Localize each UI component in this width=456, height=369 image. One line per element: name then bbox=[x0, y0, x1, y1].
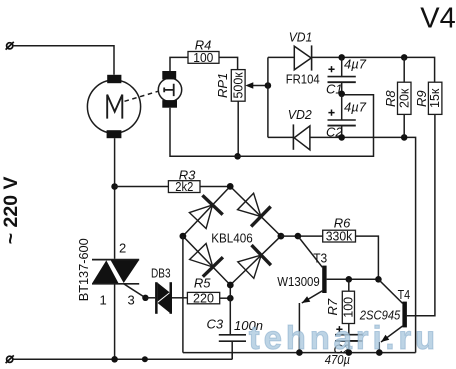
node gate bbox=[142, 295, 148, 301]
svg-text:BT137-600: BT137-600 bbox=[76, 238, 91, 301]
node T3 emitter bbox=[296, 349, 303, 356]
resistor R5 220 bbox=[187, 275, 219, 305]
diac DB3 bbox=[151, 266, 172, 314]
node bridge left bbox=[180, 233, 187, 240]
svg-text:100: 100 bbox=[193, 51, 213, 65]
wire bridge left vertical bbox=[182, 236, 184, 353]
node R8 top bbox=[401, 54, 408, 61]
wire vertical wiper net bbox=[267, 57, 269, 137]
wire tach top to R4 bbox=[170, 57, 188, 71]
node bridge bottom bbox=[227, 282, 234, 289]
svg-text:4µ7: 4µ7 bbox=[344, 100, 367, 115]
svg-text:RP1: RP1 bbox=[215, 73, 230, 98]
svg-text:R8: R8 bbox=[383, 90, 398, 107]
node R8 bottom bbox=[401, 134, 408, 141]
wire tach bottom long horizontal bbox=[170, 95, 374, 157]
wire VD1 anode bbox=[268, 56, 294, 58]
node bridge right bbox=[278, 233, 285, 240]
wire R9 bottom to T4 base bbox=[407, 114, 435, 315]
potentiometer RP1 500k bbox=[215, 70, 268, 102]
outer mains rail bbox=[13, 353, 232, 360]
svg-text:W13009: W13009 bbox=[277, 274, 320, 289]
motor M bbox=[87, 75, 140, 138]
capacitor C2 470u bbox=[325, 326, 363, 367]
svg-text:FR104: FR104 bbox=[286, 71, 320, 86]
dashed coupling motor-tach bbox=[125, 91, 159, 101]
node R3 junction bbox=[111, 183, 118, 190]
terminal X1 top-left bbox=[6, 42, 14, 50]
svg-text:R5: R5 bbox=[194, 275, 211, 290]
node R5 junction bbox=[227, 295, 234, 302]
triac VS BT137-600 bbox=[76, 238, 146, 307]
wire VD2 anode to right bbox=[310, 137, 416, 352]
svg-text:VD2: VD2 bbox=[288, 107, 313, 122]
resistor R9 15k bbox=[414, 82, 442, 114]
svg-text:R7: R7 bbox=[325, 298, 340, 315]
svg-text:20к: 20к bbox=[397, 88, 411, 108]
svg-text:R9: R9 bbox=[414, 90, 429, 107]
svg-text:KBL406: KBL406 bbox=[211, 230, 253, 245]
diode VD1 bbox=[286, 29, 320, 86]
wire T4 collector diagonal bbox=[378, 279, 402, 303]
transistor T3 W13009 bbox=[277, 236, 349, 353]
resistor R3 2k2 bbox=[168, 168, 200, 194]
node T3 base junction bbox=[295, 233, 302, 240]
wire T3 collector rail bbox=[349, 278, 379, 280]
wire RP1 bottom bbox=[237, 101, 239, 156]
svg-text:T4: T4 bbox=[398, 287, 411, 302]
wire motor to triac bbox=[114, 138, 116, 259]
node R7 top bbox=[346, 276, 353, 283]
wire R5 right bbox=[220, 297, 231, 299]
tachogenerator bbox=[158, 71, 181, 108]
svg-text:330k: 330k bbox=[326, 230, 353, 244]
svg-text:2: 2 bbox=[119, 241, 126, 256]
wire VD1 cathode rail bbox=[312, 57, 435, 82]
node C2 bottom bbox=[338, 134, 345, 141]
wire top-left to motor bbox=[13, 46, 114, 75]
svg-text:R6: R6 bbox=[334, 216, 351, 231]
svg-text:DB3: DB3 bbox=[151, 266, 171, 281]
capacitor C1 4u7 bbox=[326, 56, 367, 96]
diode VD2 bbox=[288, 107, 313, 150]
resistor R4 bbox=[188, 38, 219, 65]
svg-text:100: 100 bbox=[341, 297, 355, 318]
svg-text:1: 1 bbox=[100, 292, 107, 307]
node C1 top bbox=[338, 54, 345, 61]
transistor T4 2SC945 bbox=[359, 287, 410, 353]
capacitor C3 100n bbox=[207, 316, 263, 359]
svg-text:R4: R4 bbox=[195, 38, 212, 53]
svg-text:500к: 500к bbox=[231, 72, 245, 99]
wire R3 to bridge top bbox=[200, 186, 230, 188]
node rail dot bbox=[142, 356, 148, 362]
node T4 collector junction bbox=[375, 276, 382, 283]
svg-text:tehnari.ru: tehnari.ru bbox=[249, 319, 439, 356]
node C1 bottom bbox=[338, 91, 345, 98]
inner ground rail bbox=[183, 352, 416, 354]
svg-text:V4: V4 bbox=[420, 3, 455, 35]
node T4 emitter bbox=[376, 349, 383, 356]
svg-text:VD1: VD1 bbox=[289, 29, 313, 44]
wire bridge right to R6 bbox=[281, 235, 323, 237]
capacitor C2 4u7 bbox=[326, 95, 367, 140]
svg-text:T3: T3 bbox=[313, 250, 327, 265]
svg-text:R3: R3 bbox=[179, 168, 196, 183]
node C2 bottom rail bbox=[346, 349, 353, 356]
wire diac to R5 bbox=[172, 297, 187, 299]
node triac bottom rail bbox=[111, 356, 118, 363]
wire triac bottom bbox=[114, 284, 116, 360]
wire gate to diac bbox=[145, 297, 155, 299]
svg-text:~ 220 V: ~ 220 V bbox=[0, 177, 22, 245]
wire to R3 bbox=[115, 186, 169, 188]
node bridge top bbox=[227, 183, 234, 190]
svg-text:220: 220 bbox=[193, 292, 214, 306]
svg-text:C3: C3 bbox=[207, 316, 224, 331]
wire bridge bottom vertical bbox=[229, 285, 231, 335]
wire R6 right down bbox=[356, 236, 379, 279]
resistor R6 330k bbox=[323, 216, 356, 244]
terminal X2 bottom-left bbox=[6, 355, 14, 363]
node RP1 bottom bbox=[234, 153, 241, 160]
wire R4 to RP1 bbox=[219, 57, 238, 69]
resistor R8 20k bbox=[383, 57, 412, 137]
wire VD2 cathode bbox=[268, 136, 294, 138]
svg-text:15к: 15к bbox=[428, 88, 442, 108]
node wiper junction bbox=[265, 82, 272, 89]
resistor R7 100 bbox=[325, 279, 355, 334]
svg-text:3: 3 bbox=[128, 292, 135, 307]
svg-text:4µ7: 4µ7 bbox=[344, 56, 367, 71]
bridge rectifier KBL406 bbox=[183, 186, 281, 285]
